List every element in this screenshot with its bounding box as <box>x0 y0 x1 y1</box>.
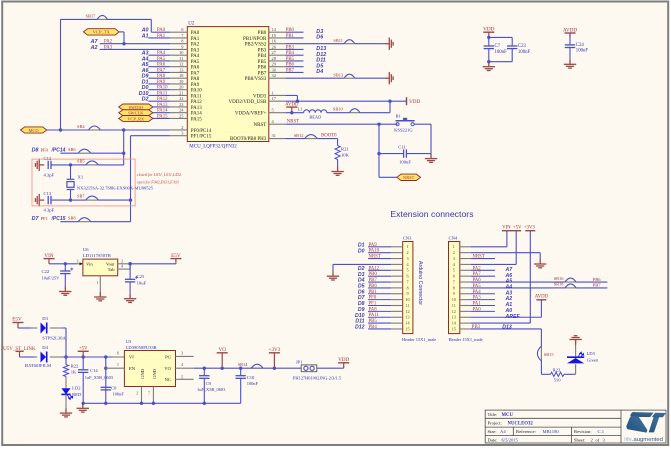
wire CN3 pin15 <box>368 328 391 330</box>
svg-text:Vout: Vout <box>106 262 115 267</box>
pin 29 PB6 stub <box>269 66 286 68</box>
svg-text:6/5/2015: 6/5/2015 <box>502 438 519 443</box>
svg-text:3: 3 <box>453 256 455 261</box>
wire JP1 to VDD <box>317 367 344 369</box>
wire PA11 row <box>148 94 170 96</box>
junction VDD/C7 <box>487 36 490 39</box>
svg-text:PF1: PF1 <box>369 302 377 307</box>
wire NRST row <box>285 123 379 125</box>
ground CN4 pin2 <box>534 259 546 268</box>
wire VDD3 down <box>296 95 298 101</box>
junction C7/C23 gnd <box>487 60 490 63</box>
wire SB16 right <box>576 281 607 283</box>
svg-text:Tab: Tab <box>108 267 116 272</box>
svg-text:C23: C23 <box>518 44 527 49</box>
wire C13 row segs <box>71 199 86 201</box>
svg-text:C22: C22 <box>42 269 50 274</box>
svg-text:PB1/NPOR: PB1/NPOR <box>243 37 267 42</box>
svg-text:Green: Green <box>587 357 599 362</box>
wire VSS2 to SB11 <box>285 43 344 45</box>
junction VDD3/VDD2 <box>296 100 299 103</box>
svg-text:SB15: SB15 <box>544 352 555 357</box>
svg-text:+3V3: +3V3 <box>268 347 280 353</box>
solder bridge SB7 <box>86 196 99 200</box>
svg-text:+5V: +5V <box>79 347 88 352</box>
svg-text:1: 1 <box>272 90 274 95</box>
svg-text:JP1: JP1 <box>296 359 303 364</box>
wire CN3 pin3 <box>368 258 391 260</box>
svg-text:BEAD: BEAD <box>309 115 321 120</box>
pin 2 PF0/PC14 stub <box>170 129 187 131</box>
CN3 pin 7 stub <box>391 281 403 283</box>
svg-text:12: 12 <box>405 309 409 314</box>
wire CN3 pin5 <box>368 269 391 271</box>
CN3 pin 3 stub <box>391 258 403 260</box>
svg-text:5: 5 <box>453 268 455 273</box>
junction C10 <box>239 367 242 370</box>
CN4 pin 11 stub <box>460 305 471 307</box>
svg-text:C14: C14 <box>90 368 98 373</box>
junction VCP_TX/PA2 <box>122 42 125 45</box>
pin 17 VDD2/VDD_USB stub <box>269 100 286 102</box>
junction EN <box>104 367 107 370</box>
U3 PG stub <box>176 355 194 357</box>
wire E5V to D3 <box>18 327 32 329</box>
solder bridge SB13 <box>344 74 355 78</box>
ground LD3 top <box>569 336 581 345</box>
ground LD2 <box>60 408 72 417</box>
svg-text:/PC15: /PC15 <box>51 216 66 222</box>
svg-text:100nF: 100nF <box>576 49 589 54</box>
wire CN3 pin4 down <box>332 264 334 271</box>
svg-text:PA12: PA12 <box>191 100 202 105</box>
svg-text:PF1/PC15: PF1/PC15 <box>191 135 212 140</box>
CN3 pin 10 stub <box>391 299 403 301</box>
svg-text:LD39050PU33R: LD39050PU33R <box>126 345 158 350</box>
svg-text:U2: U2 <box>188 22 195 27</box>
svg-text:VCP_TX: VCP_TX <box>93 30 111 35</box>
wire VCP_TX to PA2 horiz <box>119 31 124 33</box>
CN3 pin 13 stub <box>391 316 403 318</box>
junction EN column <box>104 355 107 358</box>
svg-text:PA4: PA4 <box>191 54 200 59</box>
svg-text:SB13: SB13 <box>333 72 344 77</box>
svg-text:D3: D3 <box>42 316 48 321</box>
diode D4 <box>41 352 47 363</box>
resistor R23 <box>551 372 564 376</box>
junction C11 left <box>377 152 380 155</box>
svg-text:SB11: SB11 <box>333 38 343 43</box>
wire LD3 top stub <box>575 346 577 357</box>
junction U6 out <box>128 262 131 265</box>
wire CN3 pin12 <box>368 310 391 312</box>
junction C13/X1 <box>69 198 72 201</box>
U6 ground pin stub <box>99 276 101 292</box>
svg-text:3: 3 <box>76 258 78 263</box>
capacitor C22 <box>60 271 70 274</box>
svg-text:+5V: +5V <box>513 226 522 231</box>
svg-text:Arduino Connector: Arduino Connector <box>417 261 423 305</box>
net flag MCO <box>21 127 47 133</box>
svg-text:PA5: PA5 <box>191 60 200 65</box>
CN3 pin 9 stub <box>391 293 403 295</box>
wire C7 top <box>488 37 490 46</box>
svg-text:C10: C10 <box>247 375 255 380</box>
pin 1 VDD3 stub <box>269 94 286 96</box>
crystal X1 <box>67 179 75 189</box>
svg-text:PH127H01002JNG-2/3/1.5: PH127H01002JNG-2/3/1.5 <box>293 375 342 380</box>
svg-text:PA3: PA3 <box>473 296 482 301</box>
svg-text:1: 1 <box>97 280 99 285</box>
pin 11 PA5 stub <box>170 60 187 62</box>
svg-text:11: 11 <box>452 303 456 308</box>
svg-text:PA0: PA0 <box>473 307 482 312</box>
wire R21 to ground <box>337 160 339 167</box>
wire SB17 right segment <box>107 18 151 20</box>
pin 21 PA11 stub <box>170 94 187 96</box>
wire MCO to SB4 <box>47 129 89 131</box>
junction VDD/SB10 <box>388 100 391 103</box>
wire VDDA row <box>285 112 303 114</box>
svg-text:1uF_X5R_0603: 1uF_X5R_0603 <box>85 375 114 380</box>
svg-text:VI: VI <box>129 354 134 359</box>
wire CN4 pin15 <box>471 328 541 330</box>
svg-text:MCO: MCO <box>29 128 39 133</box>
wire C22 down <box>64 264 66 271</box>
wire VSS3 to SB13 <box>285 77 344 79</box>
wire PB1 row <box>285 37 303 39</box>
wire CN3 pin9 <box>368 293 391 295</box>
highlight box crystal option <box>32 159 135 206</box>
pin 13 PA7 stub <box>170 71 187 73</box>
svg-text:SB16: SB16 <box>554 276 565 281</box>
svg-text:VDD3: VDD3 <box>253 94 267 99</box>
pin 26 PB3 stub <box>269 48 286 50</box>
svg-text:PB8/VSS3: PB8/VSS3 <box>245 77 267 82</box>
wire PA9 row <box>148 83 170 85</box>
svg-text:510: 510 <box>554 378 562 383</box>
net flag NRST <box>397 174 421 180</box>
wire CN4 pin1 to VIN <box>471 246 507 248</box>
power flag +5V <box>511 230 521 232</box>
power flag VDD top <box>483 32 494 37</box>
svg-text:C13: C13 <box>44 191 52 196</box>
wire CN4 pin7 long <box>471 281 554 283</box>
wire C14 bottom <box>82 372 84 403</box>
pin 20 PA10 stub <box>170 89 187 91</box>
capacitor C25 <box>125 279 135 282</box>
diode D4 anode stub <box>35 356 37 358</box>
wire PA7 row <box>148 71 170 73</box>
ground SB13 <box>384 72 393 84</box>
solder bridge SB10 <box>349 109 360 113</box>
wire CN3 pin2 <box>368 252 391 254</box>
svg-text:2: 2 <box>181 125 183 130</box>
wire C12 to X1 node <box>51 164 71 166</box>
junction SB7/PF1 <box>129 198 132 201</box>
wire CN4 pin10 <box>471 299 495 301</box>
wire SB11 to ground <box>355 43 385 45</box>
ground C11 <box>425 154 437 163</box>
svg-text:2: 2 <box>136 391 138 396</box>
wire CN3 pin6 <box>368 275 391 277</box>
junction AVDD <box>290 111 293 114</box>
svg-text:PB3: PB3 <box>258 48 267 53</box>
wire C22 to ground <box>64 274 66 287</box>
svg-text:100nF: 100nF <box>113 392 125 397</box>
wire +3V3 stem <box>529 231 531 323</box>
svg-text:MB1180: MB1180 <box>543 429 560 434</box>
svg-text:2: 2 <box>406 250 408 255</box>
svg-text:SB6: SB6 <box>68 147 76 152</box>
wire NRST to B1 <box>379 123 398 125</box>
wire CN3 pin4 to ground <box>333 263 391 265</box>
svg-text:NRST: NRST <box>403 175 415 180</box>
wire C10 down <box>240 368 242 376</box>
solder bridge SB11 <box>344 40 355 44</box>
junction rail GND7 <box>152 402 155 405</box>
wire SB13 to ground <box>355 77 385 79</box>
svg-text:/PC14: /PC14 <box>51 147 66 153</box>
wire PA6 row <box>148 66 170 68</box>
svg-text:PB2/VSS2: PB2/VSS2 <box>245 43 267 48</box>
svg-text:Project:: Project: <box>488 421 502 426</box>
svg-text:NX3215SA-32.768K-EXS00A-MU0052: NX3215SA-32.768K-EXS00A-MU00525 <box>77 185 154 190</box>
wire CN4 pin2 to ground <box>471 252 540 254</box>
svg-text:100nF: 100nF <box>399 160 411 165</box>
svg-text:5: 5 <box>406 268 408 273</box>
wire B1 right down <box>430 124 432 153</box>
solder bridge SB17 <box>97 15 107 19</box>
pin 25 PA15 stub <box>170 117 187 119</box>
svg-text:PA1: PA1 <box>191 37 200 42</box>
wire SB18 right <box>576 287 607 289</box>
svg-text:C11: C11 <box>398 144 406 149</box>
wire D3 to corner <box>62 327 66 329</box>
voltage regulator U3 <box>124 351 175 387</box>
svg-text:PA1: PA1 <box>473 302 482 307</box>
capacitor C12 <box>48 161 51 169</box>
svg-text:PA2: PA2 <box>191 43 200 48</box>
pin 9 PA3 stub <box>170 48 187 50</box>
wire U6 pin4 up <box>129 264 131 269</box>
svg-text:32: 32 <box>272 73 276 78</box>
svg-text:PB5: PB5 <box>369 319 378 324</box>
svg-text:KSS221G: KSS221G <box>394 127 413 132</box>
wire SB8 to PF1 vert <box>91 221 131 223</box>
svg-text:Header 15X1_male: Header 15X1_male <box>402 337 436 342</box>
wire C9 bottom <box>203 378 205 403</box>
wire CN4 pin2 down <box>539 253 541 259</box>
power flag +3V3 <box>525 230 535 232</box>
wire SB18 to PB7 <box>554 287 566 289</box>
wire C7 bottom <box>488 49 490 62</box>
power flag AVDD CN4 <box>536 299 546 301</box>
svg-text:D12: D12 <box>355 325 365 331</box>
svg-text:Revision:: Revision: <box>574 429 592 434</box>
svg-text:2: 2 <box>121 258 123 263</box>
svg-text:PB7: PB7 <box>258 71 267 76</box>
wire R22 top <box>65 357 67 365</box>
wire CN3 pin14 <box>368 322 391 324</box>
wire SB4 to MCU pin2 <box>101 129 171 131</box>
svg-text:PB4: PB4 <box>369 325 378 330</box>
svg-text:21: 21 <box>179 90 183 95</box>
svg-text:SB7: SB7 <box>77 194 85 199</box>
wire C23 top vert <box>511 37 513 46</box>
svg-text:22: 22 <box>179 96 183 101</box>
resistor R21 <box>335 146 340 160</box>
svg-text:PF0: PF0 <box>41 148 49 153</box>
svg-text:AVDD: AVDD <box>563 27 578 33</box>
wire PF1 vertical <box>130 136 132 222</box>
ground C25 <box>124 294 136 303</box>
svg-text:A2: A2 <box>90 45 98 51</box>
power flag +5V rail <box>78 351 89 357</box>
svg-text:C24: C24 <box>576 43 585 48</box>
svg-text:12: 12 <box>452 309 456 314</box>
svg-text:VDD: VDD <box>483 27 494 33</box>
CN3 pin 11 stub <box>391 305 403 307</box>
svg-text:SB4: SB4 <box>77 124 85 129</box>
wire SB17 left segment <box>61 18 98 20</box>
svg-text:PG: PG <box>165 354 172 359</box>
junction C12/X1 <box>69 163 72 166</box>
svg-text:Reference:: Reference: <box>516 429 536 434</box>
svg-text:NRST: NRST <box>254 123 267 128</box>
svg-text:10: 10 <box>405 297 409 302</box>
wire SB12 to corner <box>317 138 337 140</box>
svg-text:10uF: 10uF <box>137 280 147 285</box>
wire B1 right <box>414 123 431 125</box>
power flag VO <box>217 353 228 368</box>
wire BOOT0 down <box>337 139 339 146</box>
svg-text:AVDD: AVDD <box>535 295 549 300</box>
svg-text:PA4: PA4 <box>473 290 482 295</box>
ground C12 left <box>35 159 44 171</box>
title block <box>485 410 666 443</box>
capacitor C11 <box>404 149 407 157</box>
svg-text:PB0: PB0 <box>369 272 378 277</box>
ground C22 <box>59 287 71 296</box>
wire R23 to LD3 <box>564 373 576 375</box>
solder bridge SB8 <box>78 218 91 222</box>
svg-text:6: 6 <box>453 274 455 279</box>
pin 12 PA6 stub <box>170 66 187 68</box>
wire LD3 to power <box>575 340 577 346</box>
wire SB15 to R23 horiz <box>541 373 550 375</box>
pin 24 PA14 stub <box>170 112 187 114</box>
junction C22 <box>64 262 67 265</box>
solder bridge SB15 <box>537 346 541 361</box>
ground rail <box>77 403 89 412</box>
wire X1 bottom <box>70 190 72 201</box>
CN3 pin 15 stub <box>391 328 403 330</box>
capacitor C13 <box>48 196 51 204</box>
svg-text:PA11: PA11 <box>191 94 202 99</box>
svg-text:10uF/25V: 10uF/25V <box>42 276 61 281</box>
svg-text:SB10: SB10 <box>333 106 344 111</box>
wire CN4 pin6 <box>471 275 495 277</box>
CN3 pin 8 stub <box>391 287 403 289</box>
pin 15 PB1/NPOR stub <box>269 37 286 39</box>
wire D13 down to SB15 <box>540 329 542 346</box>
svg-text:1K: 1K <box>71 369 77 374</box>
wire VDD rail <box>285 100 390 102</box>
ground C13 left <box>35 194 44 206</box>
pin 3 PF1/PC15 stub <box>170 135 187 137</box>
CN3 pin 4 stub <box>391 263 403 265</box>
svg-text:6: 6 <box>117 351 119 356</box>
wire PB4 row <box>285 54 303 56</box>
net flag VCP_RX <box>119 116 153 122</box>
svg-text:PA9: PA9 <box>369 243 378 248</box>
svg-text:L1: L1 <box>298 107 303 112</box>
svg-text:1uF_X5R_0603: 1uF_X5R_0603 <box>197 387 226 392</box>
svg-text:SB12: SB12 <box>294 133 304 138</box>
ground R21 <box>331 167 343 176</box>
svg-text:U3: U3 <box>126 339 132 344</box>
wire CN4 pin11 <box>471 305 495 307</box>
wire VO rail <box>194 367 302 369</box>
wire PA0 row <box>151 31 170 33</box>
svg-text:PB0: PB0 <box>258 31 267 36</box>
svg-text:PB7: PB7 <box>369 278 378 283</box>
svg-text:C7: C7 <box>495 44 501 49</box>
LED LD2 <box>61 388 70 394</box>
wire +5V stem <box>515 231 517 265</box>
junction C25 <box>128 262 131 265</box>
pin 28 PB5 stub <box>269 60 286 62</box>
svg-text:PA8: PA8 <box>369 307 378 312</box>
wire NRST to hexflag horiz <box>379 176 397 178</box>
svg-text:SB8: SB8 <box>68 215 76 220</box>
wire PB7 row <box>285 71 303 73</box>
junction MCO/SB17 <box>59 128 62 131</box>
CN4 pin 14 stub <box>460 322 471 324</box>
svg-text:C9: C9 <box>206 381 212 386</box>
wire C10 bottom <box>240 378 242 403</box>
wire C7-C23 top <box>489 36 512 38</box>
svg-text:VDD: VDD <box>409 99 420 105</box>
svg-text:LD1117S50TR: LD1117S50TR <box>83 253 112 258</box>
junction +3V3 bottom <box>273 367 276 370</box>
svg-text:PB6: PB6 <box>258 66 267 71</box>
capacitor C10 <box>236 376 246 379</box>
ferrite bead L1 <box>304 110 327 113</box>
svg-text:U6: U6 <box>83 247 89 252</box>
capacitor C23 <box>507 46 517 49</box>
svg-text:SB17: SB17 <box>86 14 97 19</box>
wire PA1 row <box>148 37 170 39</box>
wire SB10 to VDD corner <box>360 112 390 114</box>
svg-text:100nF: 100nF <box>518 50 531 55</box>
wire PA0 vertical from SB17 <box>150 19 152 32</box>
svg-text:C.1: C.1 <box>598 429 605 434</box>
svg-text:GND: GND <box>140 368 145 379</box>
svg-text:PA13: PA13 <box>191 106 202 111</box>
ground C24 <box>564 59 576 68</box>
svg-text:3: 3 <box>406 256 408 261</box>
svg-text:C25: C25 <box>137 274 145 279</box>
power flag VIN U6 <box>44 259 55 264</box>
junction C9 <box>203 367 206 370</box>
solder bridge SB12 <box>305 135 318 139</box>
solder bridge SB16 <box>565 278 576 282</box>
wire VIN stem <box>506 231 508 247</box>
wire C13 to X1 node <box>51 199 71 201</box>
svg-text:2: 2 <box>453 250 455 255</box>
